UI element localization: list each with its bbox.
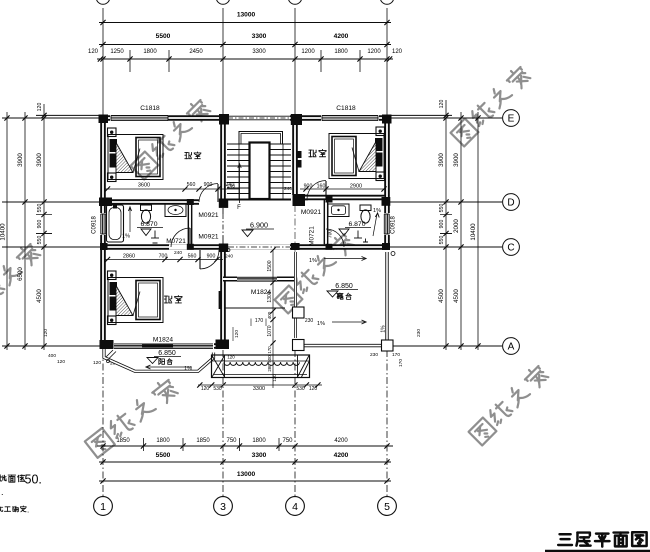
svg-text:1800: 1800 [156, 438, 170, 444]
svg-text:6.850: 6.850 [335, 283, 353, 290]
watermark 1 [130, 97, 212, 179]
right dim line inner [445, 100, 447, 350]
right ext line C [390, 246, 502, 248]
svg-text:750: 750 [226, 438, 237, 444]
svg-text:900: 900 [439, 220, 445, 229]
door-window M1824 [114, 343, 213, 345]
terrace bottom rail [296, 344, 386, 347]
left ext line rooftick [36, 114, 100, 116]
svg-text:120: 120 [439, 100, 445, 109]
stair void [250, 143, 270, 200]
column 9 [187, 199, 194, 205]
dim row bedroom3 top [105, 259, 223, 261]
svg-text:3900: 3900 [17, 153, 24, 167]
window C0918 left [100, 214, 102, 234]
svg-text:550: 550 [439, 236, 445, 245]
door M0721 right bath [326, 229, 344, 247]
svg-text:1850: 1850 [116, 438, 130, 444]
svg-text:3300: 3300 [253, 386, 265, 392]
svg-text:C0918: C0918 [391, 216, 397, 234]
watermark 2 [450, 64, 532, 146]
slope arrow right bath [373, 214, 377, 236]
left dim line outer [6, 112, 8, 350]
title underline [545, 550, 650, 552]
label bedroom1 [185, 152, 192, 158]
left ext ticks [36, 214, 52, 216]
grid bubble C [503, 239, 520, 256]
svg-text:1%: 1% [309, 258, 317, 264]
svg-text:13000: 13000 [237, 12, 256, 19]
wardrobe marks bedroom2 [297, 151, 302, 158]
left ext line C [2, 246, 100, 248]
svg-text:120: 120 [272, 374, 277, 382]
stairwell west wall [220, 121, 226, 200]
terrace drain circle [391, 252, 395, 256]
svg-text:.: . [1, 487, 4, 497]
door M0921 bedroom1 [217, 184, 219, 202]
window C0918 left blank [100, 213, 106, 235]
svg-text:M0721: M0721 [309, 226, 316, 246]
svg-text:3600: 3600 [138, 183, 150, 189]
planter end right [298, 356, 310, 378]
dim row below bedroom2 [300, 188, 386, 190]
label terrace [337, 293, 343, 299]
svg-text:2000: 2000 [453, 219, 460, 233]
top grid stems [102, 8, 104, 115]
svg-text:M0921: M0921 [198, 212, 218, 219]
svg-text:.: . [27, 506, 29, 515]
svg-text:C: C [507, 243, 514, 254]
right exterior wall [384, 115, 390, 249]
svg-text:M0921: M0921 [301, 209, 321, 216]
terrace right rail [385, 252, 388, 343]
grid bubble top 1 [216, 0, 230, 4]
column 10 [326, 196, 333, 203]
bed bedroom1 [108, 128, 117, 137]
grid dashline x4 [294, 205, 296, 340]
window C1818 right [322, 115, 378, 117]
svg-text:3900: 3900 [36, 153, 43, 167]
svg-text:280: 280 [267, 364, 272, 372]
bottom dim line row B [99, 461, 391, 463]
column 6 [219, 199, 228, 208]
svg-text:120: 120 [309, 386, 318, 392]
C wall [106, 244, 387, 250]
column 4 [382, 115, 392, 124]
top extension ticks [129, 50, 131, 72]
column 15 [187, 244, 194, 250]
corridor dim line [272, 250, 274, 388]
window C0918 right blank [384, 213, 390, 235]
bed bedroom3 [108, 271, 117, 280]
planter frame [212, 355, 310, 378]
svg-text:120: 120 [88, 49, 99, 55]
hollow post 3 [382, 340, 394, 351]
D wall right stub [295, 195, 308, 201]
stair base line [227, 199, 291, 201]
svg-text:1%: 1% [122, 234, 130, 240]
D wall left [106, 199, 199, 205]
note line3 [0, 506, 3, 512]
svg-text:1250: 1250 [110, 49, 124, 55]
column 11 [100, 243, 108, 250]
grid bubble 1 [94, 497, 113, 516]
column 2 [219, 114, 229, 125]
column 7 [293, 194, 306, 206]
left dim line inner [43, 104, 45, 350]
svg-text:1800: 1800 [334, 49, 348, 55]
grid bubble E [503, 110, 520, 127]
door M0921 bedroom2 [325, 181, 327, 199]
column 5 [99, 198, 112, 207]
grid bubble A [503, 338, 520, 355]
svg-text:4200: 4200 [334, 452, 349, 459]
svg-text:700: 700 [328, 230, 334, 239]
svg-text:1200: 1200 [301, 49, 315, 55]
corridor step line [224, 307, 285, 309]
bottom grid stems [102, 350, 104, 496]
balcony circle [106, 359, 109, 362]
svg-text:E: E [508, 114, 515, 125]
C wall hall opening [228, 244, 290, 249]
svg-text:6500: 6500 [17, 267, 24, 281]
svg-text:1070: 1070 [267, 325, 273, 336]
door leaf bedroom3 east [219, 291, 222, 309]
door bedroom3 [199, 250, 201, 269]
label bedroom2 [309, 150, 316, 157]
svg-text:1%: 1% [317, 321, 325, 327]
bathtub left [107, 205, 124, 242]
left ext line D [2, 201, 100, 203]
svg-text:1300: 1300 [267, 291, 273, 302]
right ext line rooftick [390, 114, 452, 116]
grid bubble 4 [286, 497, 305, 516]
svg-text:240: 240 [174, 250, 182, 256]
stairwell top opening blank [228, 115, 290, 122]
svg-text:4500: 4500 [36, 289, 43, 303]
slope arrow left bath [129, 208, 131, 232]
svg-text:13000: 13000 [237, 471, 256, 478]
grid bubble 5 [378, 497, 397, 516]
svg-text:560: 560 [187, 182, 196, 188]
svg-text:530: 530 [296, 386, 305, 392]
svg-text:10400: 10400 [470, 223, 477, 241]
hall opening centerline [222, 208, 224, 214]
column 1 [99, 115, 109, 124]
window C1818 right blank [321, 115, 379, 122]
bedroom3 wall vertical [220, 250, 226, 341]
left exterior wall [100, 115, 106, 348]
svg-text:M0721: M0721 [166, 238, 186, 245]
sink right [328, 204, 349, 217]
left dim line mid [24, 112, 26, 350]
D wall right [305, 195, 384, 201]
top dim line row3 [97, 58, 393, 60]
bottom dim line row C [99, 480, 391, 482]
balcony break mark [106, 350, 113, 357]
bottom exterior wall (A) [100, 343, 226, 349]
svg-text:120: 120 [37, 103, 43, 112]
svg-text:400: 400 [267, 311, 272, 319]
door-window M1824 blank [112, 343, 214, 350]
watermark 3 [274, 231, 356, 313]
svg-text:1800: 1800 [143, 49, 157, 55]
svg-text:3300: 3300 [252, 49, 266, 55]
svg-text:5: 5 [384, 501, 390, 513]
terrace left rail [294, 252, 297, 338]
left ext line A [2, 345, 100, 347]
top exterior wall [100, 115, 389, 121]
svg-text:160: 160 [317, 184, 326, 190]
svg-text:170: 170 [255, 318, 264, 324]
bath wall right vertical [324, 200, 329, 244]
planter scallops [224, 362, 230, 365]
svg-text:230: 230 [370, 352, 378, 358]
column 13 [291, 243, 300, 250]
svg-text:240: 240 [225, 254, 233, 260]
svg-text:170: 170 [398, 359, 404, 367]
svg-text:230: 230 [305, 318, 314, 324]
column 3 [291, 114, 302, 125]
svg-text:A: A [508, 342, 515, 353]
svg-text:4200: 4200 [334, 438, 348, 444]
svg-text:900: 900 [207, 254, 216, 260]
svg-text:1%: 1% [381, 325, 387, 333]
svg-text:50.: 50. [25, 473, 42, 487]
svg-text:6.900: 6.900 [250, 221, 268, 230]
svg-text:120: 120 [227, 355, 235, 360]
stair stringers [238, 144, 240, 199]
sink left [165, 204, 186, 217]
column 17 [100, 340, 114, 349]
svg-text:500: 500 [267, 355, 272, 363]
label balcony [159, 359, 165, 365]
svg-text:240: 240 [226, 182, 235, 188]
grid bubble top 0 [96, 0, 110, 4]
grid bubble top 2 [288, 0, 302, 4]
svg-text:120: 120 [93, 360, 101, 366]
dim row below bedroom1 [105, 188, 240, 190]
corridor wall M1824 [223, 277, 295, 282]
left ext line E [2, 117, 100, 119]
watermark 6 [0, 241, 42, 323]
svg-text:6.870: 6.870 [348, 221, 365, 228]
svg-text:900: 900 [204, 182, 213, 188]
svg-text:530: 530 [213, 386, 222, 392]
column 8 [382, 197, 391, 206]
column 14 [382, 243, 390, 250]
svg-text:2900: 2900 [350, 184, 362, 190]
stair arrow [239, 165, 241, 203]
bottom extension ticks [143, 438, 145, 451]
corridor wall opening [237, 277, 277, 282]
svg-text:560: 560 [188, 254, 197, 260]
svg-text:3: 3 [220, 501, 226, 513]
svg-text:2450: 2450 [189, 49, 203, 55]
watermark 4 [468, 363, 550, 445]
svg-text:5500: 5500 [156, 33, 171, 40]
stair treads [227, 143, 291, 145]
svg-text:1800: 1800 [252, 438, 266, 444]
svg-text:230: 230 [416, 329, 422, 337]
svg-text:1500: 1500 [267, 260, 273, 271]
column 12 [219, 244, 228, 253]
floor drain right [363, 241, 368, 243]
top dim line row2 [99, 44, 391, 46]
bath wall left vertical [188, 205, 193, 245]
svg-text:120: 120 [201, 386, 210, 392]
column 16 [326, 244, 333, 250]
svg-text:4500: 4500 [453, 289, 460, 303]
window C0918 right [383, 214, 385, 234]
column 18 [216, 340, 230, 350]
grid bubble top 3 [380, 0, 394, 4]
svg-text:170: 170 [267, 346, 272, 354]
stair handrail [239, 132, 283, 145]
right ext ticks [440, 214, 452, 216]
hollow post 1 [293, 307, 305, 318]
svg-text:C1818: C1818 [336, 105, 356, 112]
svg-text:240: 240 [284, 186, 292, 192]
stairwell top window [228, 115, 290, 117]
svg-text:F: F [237, 205, 241, 211]
svg-text:550: 550 [37, 204, 43, 213]
svg-text:1200: 1200 [367, 49, 381, 55]
svg-text:4500: 4500 [438, 289, 445, 303]
bed bedroom2 [376, 127, 385, 136]
svg-text:3900: 3900 [438, 153, 445, 167]
svg-text:1: 1 [100, 501, 106, 513]
title third floor plan [558, 534, 572, 545]
svg-text:C1818: C1818 [140, 105, 160, 112]
right ext line A [390, 345, 502, 347]
svg-text:400: 400 [48, 353, 56, 359]
svg-text:120: 120 [43, 329, 49, 337]
C wall door opening left [169, 244, 190, 249]
svg-text:1%: 1% [373, 208, 381, 214]
svg-text:750: 750 [282, 438, 293, 444]
planter end left [212, 356, 225, 378]
top dim line 13000 [99, 22, 391, 24]
svg-text:550: 550 [439, 204, 445, 213]
window C1818 left [111, 115, 168, 117]
svg-text:D: D [507, 198, 514, 209]
planter dim line [198, 384, 322, 386]
svg-text:120: 120 [234, 330, 240, 338]
svg-text:M0921: M0921 [198, 234, 218, 241]
right ext line E [390, 117, 502, 119]
toilet left [141, 205, 152, 211]
svg-text:4: 4 [292, 501, 298, 513]
svg-text:10400: 10400 [0, 223, 7, 241]
door M0721 left bath [189, 228, 191, 247]
label bedroom3 [164, 296, 171, 303]
svg-text:5500: 5500 [156, 452, 171, 459]
svg-text:4200: 4200 [334, 33, 349, 40]
stairwell east wall [292, 121, 298, 195]
grid bubble D [503, 194, 520, 211]
svg-text:2860: 2860 [123, 254, 135, 260]
svg-text:6.850: 6.850 [158, 350, 176, 357]
right dim line outer [477, 112, 479, 350]
svg-text:550: 550 [37, 236, 43, 245]
svg-text:3300: 3300 [252, 452, 267, 459]
svg-text:6.870: 6.870 [140, 221, 157, 228]
svg-text:C0918: C0918 [92, 216, 98, 234]
svg-text:1850: 1850 [196, 438, 210, 444]
svg-text:3300: 3300 [252, 33, 267, 40]
hollow post 2 [293, 340, 305, 351]
svg-text:3900: 3900 [453, 153, 460, 167]
right ext line D [390, 201, 502, 203]
svg-text:M1824: M1824 [153, 337, 173, 344]
floor drain left [153, 242, 158, 244]
window C1818 left blank [110, 115, 168, 122]
toilet right [360, 205, 371, 211]
doorstop circle hall [227, 249, 230, 252]
right dim line mid [460, 112, 462, 350]
svg-text:900: 900 [37, 220, 43, 229]
bottom dim line row A [97, 445, 393, 447]
grid bubble 3 [214, 497, 233, 516]
svg-text:120: 120 [392, 49, 403, 55]
svg-text:170: 170 [392, 352, 400, 358]
balcony rail [104, 349, 214, 372]
svg-text:120: 120 [57, 359, 65, 365]
watermark 5 [84, 377, 179, 458]
